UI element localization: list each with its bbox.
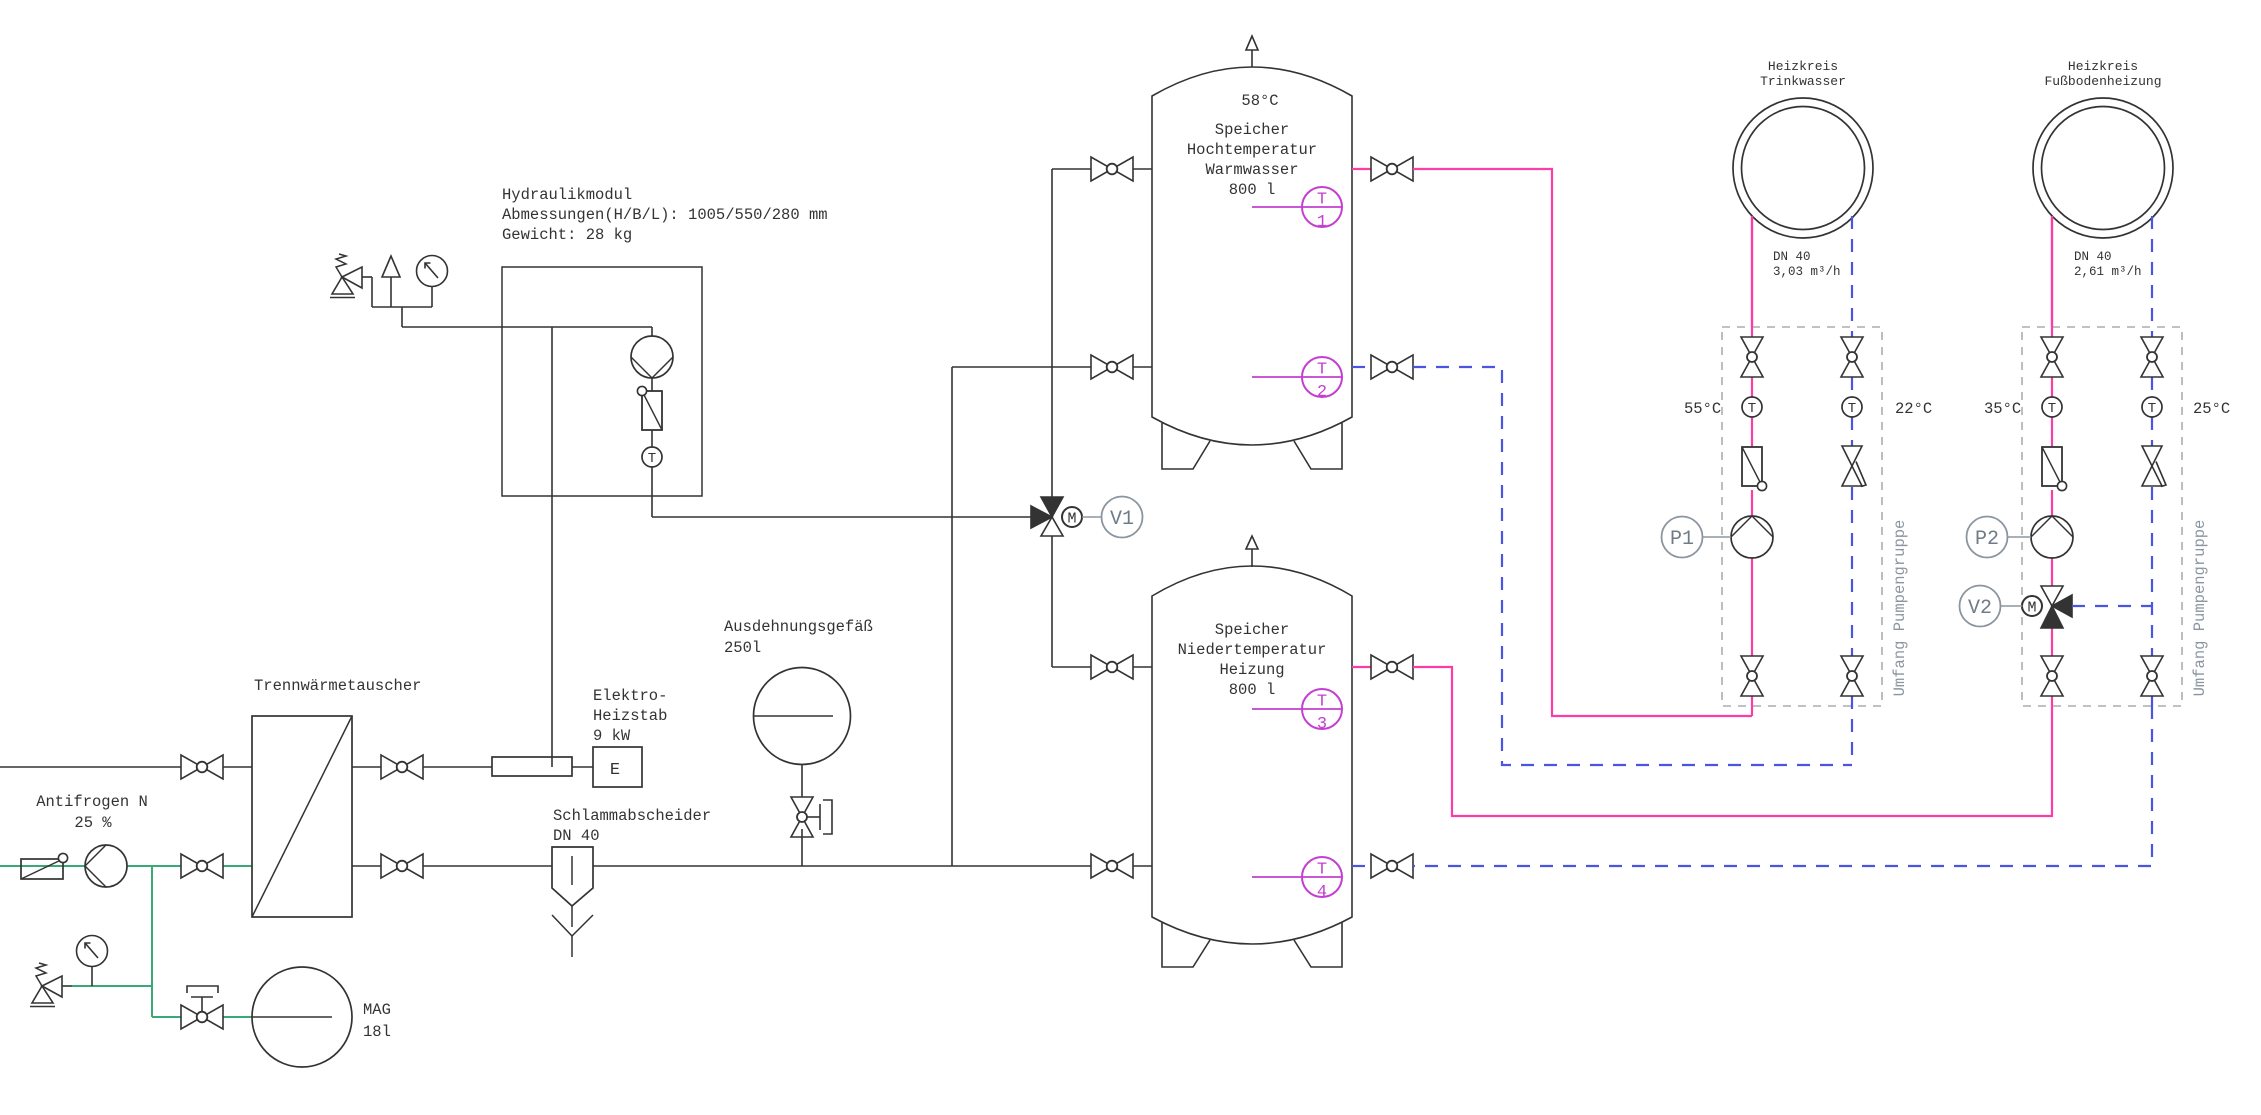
component: Heizkreis Fußbodenheizung circle: [2033, 98, 2173, 238]
svg-text:Heizstab: Heizstab: [593, 707, 667, 725]
svg-text:T: T: [1848, 401, 1856, 417]
svg-text:2: 2: [1317, 383, 1327, 402]
svg-text:M: M: [2027, 600, 2036, 617]
component: group1 strainer: [1742, 447, 1767, 491]
svg-text:Abmessungen(H/B/L): 1005/550/2: Abmessungen(H/B/L): 1005/550/280 mm: [502, 206, 828, 224]
sensor: T1: [1252, 187, 1342, 232]
label: P2 circle: [1967, 517, 2008, 558]
sensor: group1 supply T: [1742, 397, 1762, 417]
component: tank1 right leg: [1294, 423, 1342, 469]
pump: antifrogen circulation pump: [85, 845, 127, 887]
valve: tank1 lower-right: [1371, 355, 1413, 379]
svg-text:4: 4: [1317, 883, 1327, 902]
wire: pump inlet stub: [651, 327, 653, 336]
svg-text:250l: 250l: [724, 639, 761, 657]
svg-text:25 %: 25 %: [74, 814, 112, 832]
svg-text:22°C: 22°C: [1895, 400, 1932, 418]
svg-text:9 kW: 9 kW: [593, 727, 631, 745]
component: antifrogen feeder with float (rect+diagonal+circle): [21, 853, 68, 879]
svg-text:Umfang Pumpengruppe: Umfang Pumpengruppe: [2191, 520, 2209, 697]
wire: V2 actuator link: [2000, 605, 2023, 607]
svg-text:3: 3: [1317, 715, 1327, 734]
valve: tank2 upper-left: [1091, 655, 1133, 679]
wire: blue return rise group2: [2151, 216, 2153, 706]
wire: heat exchanger to electric heater (y=767): [352, 766, 593, 768]
svg-text:Speicher: Speicher: [1215, 621, 1289, 639]
valve: group2 supply top: [2041, 337, 2063, 377]
component: Trennwärmetauscher heat exchanger: [252, 716, 352, 917]
svg-text:Antifrogen N: Antifrogen N: [36, 793, 148, 811]
wire: green branch to MAG: [152, 866, 252, 1017]
label: V2 circle: [1960, 586, 2001, 627]
valve: group1 return top: [1841, 337, 1863, 377]
svg-text:Ausdehnungsgefäß: Ausdehnungsgefäß: [724, 618, 873, 636]
valve: tank1 lower-left: [1091, 355, 1133, 379]
sensor: module T thermometer: [642, 447, 662, 467]
wire: pink supply drop group1: [1751, 216, 1753, 716]
svg-text:V2: V2: [1968, 597, 1992, 620]
label: tank1 text: [1187, 92, 1317, 199]
component: air vent triangle top-left: [382, 256, 400, 277]
label: Ausdehnungsgefäß 250l: [724, 618, 873, 657]
wire: blue return group1 to tank1: [1413, 367, 1852, 765]
sensor: T4: [1252, 857, 1342, 902]
svg-text:Hydraulikmodul: Hydraulikmodul: [502, 186, 632, 204]
svg-text:MAG: MAG: [363, 1001, 391, 1019]
label: DN 40 / 3,03 m³/h: [1773, 250, 1841, 279]
svg-text:T: T: [1317, 693, 1327, 712]
svg-text:E: E: [610, 761, 620, 780]
label: MAG 18l: [363, 1001, 391, 1041]
svg-text:3,03 m³/h: 3,03 m³/h: [1773, 265, 1841, 279]
label: tank2 text: [1178, 621, 1327, 699]
svg-text:T: T: [2048, 401, 2056, 417]
svg-text:800 l: 800 l: [1229, 681, 1276, 699]
svg-text:V1: V1: [1110, 508, 1134, 531]
svg-text:T: T: [1317, 191, 1327, 210]
gauge: pressure gauge bottom-left: [77, 936, 108, 967]
label: Schlammabscheider DN 40: [553, 807, 711, 845]
valve: group2 balancing valve: [2142, 446, 2166, 487]
svg-text:DN 40: DN 40: [2074, 250, 2112, 264]
sensor: group1 return T: [1842, 397, 1862, 417]
component: tank2 left leg: [1162, 922, 1210, 967]
svg-text:Heizkreis: Heizkreis: [1768, 59, 1838, 74]
pump: P2 circulation pump: [2031, 516, 2073, 558]
wire: module branch down to heater: [551, 327, 553, 767]
wire: heat exchanger return to storage (y=866): [352, 865, 1152, 867]
valve: V1 three-way mixing valve: [1031, 497, 1063, 536]
wire: tank1 upper-left stub: [1133, 168, 1152, 170]
wire: tank2 return blue stub: [1352, 865, 1371, 867]
wire: expansion vessel to return pipe: [801, 829, 803, 866]
wire: tank1 return blue stub: [1352, 366, 1371, 368]
component: Schlammabscheider dirt separator: [552, 847, 593, 906]
component: tank1 left leg: [1162, 423, 1210, 469]
component: tank2 right leg: [1294, 922, 1342, 967]
svg-text:Umfang Pumpengruppe: Umfang Pumpengruppe: [1891, 520, 1909, 697]
valve: tank2 upper-right: [1371, 655, 1413, 679]
component: electric heater box E: [593, 747, 642, 787]
wire: tank1 upper-left port: [1052, 168, 1091, 170]
svg-text:1: 1: [1317, 213, 1327, 232]
valve: MAG fill valve with cap: [181, 986, 223, 1029]
svg-text:Schlammabscheider: Schlammabscheider: [553, 807, 711, 825]
valve: group1 supply bottom: [1741, 656, 1763, 696]
valve: group1 return bottom: [1841, 656, 1863, 696]
wire: blue return group2 to tank2: [1413, 706, 2152, 866]
wire: riser tank1-bottom to return pipe (x=952): [951, 367, 953, 866]
wire: pink supply drop group2: [2051, 216, 2053, 706]
valve: tank1 upper-right: [1371, 157, 1413, 181]
svg-text:18l: 18l: [363, 1023, 391, 1041]
svg-text:Heizkreis: Heizkreis: [2068, 59, 2138, 74]
wire: pump to filter: [651, 378, 653, 391]
valve: tank2 lower-left: [1091, 854, 1133, 878]
svg-text:Warmwasser: Warmwasser: [1205, 161, 1298, 179]
svg-text:P2: P2: [1975, 528, 1999, 551]
svg-text:T: T: [648, 451, 656, 467]
component: immersion heater element: [492, 757, 572, 776]
box: Umfang Pumpengruppe 1 dashed: [1722, 327, 1882, 706]
component: module filter/strainer: [637, 386, 662, 430]
wire: V2 bypass dashed: [2072, 605, 2152, 607]
valve: supply-side left of heat exchanger: [181, 755, 223, 779]
valve: V2 three-way mixing valve: [2041, 586, 2072, 628]
component: safety relief valve bottom-left: [30, 963, 62, 1007]
svg-text:35°C: 35°C: [1984, 400, 2021, 418]
component: V1 actuator M: [1062, 507, 1082, 528]
label: Hydraulikmodul data: [502, 186, 828, 244]
vessel: Speicher Hochtemperatur Warmwasser tank body: [1152, 67, 1352, 445]
valve: supply-side right of heat exchanger: [381, 755, 423, 779]
wire: primary supply pipe to heat exchanger (y=767): [0, 766, 252, 768]
wire: tank1 supply pink stub: [1352, 168, 1371, 170]
label: DN 40 / 2,61 m³/h: [2074, 250, 2142, 279]
component: tank1 vent: [1246, 36, 1258, 67]
wire: P1 link: [1702, 536, 1731, 538]
wire: blue return rise group1: [1851, 216, 1853, 765]
component: dirt separator drain: [552, 906, 593, 957]
svg-text:T: T: [2148, 401, 2156, 417]
svg-text:DN 40: DN 40: [1773, 250, 1811, 264]
svg-text:Hochtemperatur: Hochtemperatur: [1187, 141, 1317, 159]
svg-text:T: T: [1317, 361, 1327, 380]
valve: group2 return bottom: [2141, 656, 2163, 696]
valve: group1 supply top: [1741, 337, 1763, 377]
svg-text:DN 40: DN 40: [553, 827, 600, 845]
box: Hydraulikmodul outline: [502, 267, 702, 496]
label: Heizkreis Trinkwasser: [1760, 59, 1846, 89]
svg-text:Elektro-: Elektro-: [593, 687, 667, 705]
wire: tank2 upper-left stub: [1133, 666, 1152, 668]
wire: gauge stem bottom-left: [91, 967, 93, 986]
wire: tank1 lower-left stub: [1133, 366, 1152, 368]
wire: module outlet down: [651, 467, 653, 517]
valve: tank1 upper-left: [1091, 157, 1133, 181]
svg-text:Heizung: Heizung: [1219, 661, 1284, 679]
label: V1 circle: [1102, 497, 1143, 538]
svg-text:Trennwärmetauscher: Trennwärmetauscher: [254, 677, 421, 695]
sensor: T2: [1252, 357, 1342, 402]
valve: expansion vessel isolation valve with cap: [791, 797, 832, 837]
valve: return-side left of heat exchanger: [181, 854, 223, 878]
label: Antifrogen N 25 %: [36, 793, 148, 832]
valve: group1 balancing valve: [1842, 446, 1866, 487]
sensor: group2 return T: [2142, 397, 2162, 417]
component: expansion vessel 250l: [753, 668, 851, 765]
svg-text:2,61 m³/h: 2,61 m³/h: [2074, 265, 2142, 279]
svg-text:P1: P1: [1670, 528, 1694, 551]
wire: tank1 lower-left port: [952, 366, 1091, 368]
component: MAG expansion vessel 18l: [252, 967, 352, 1067]
vessel: Speicher Niedertemperatur Heizung tank body: [1152, 566, 1352, 944]
wire: riser to V1 (x=1052) upper: [1051, 169, 1053, 497]
component: Heizkreis Trinkwasser circle: [1733, 98, 1873, 238]
svg-text:800 l: 800 l: [1229, 181, 1276, 199]
svg-text:Fußbodenheizung: Fußbodenheizung: [2044, 74, 2161, 89]
valve: group2 supply bottom: [2041, 656, 2063, 696]
svg-text:58°C: 58°C: [1241, 92, 1278, 110]
pump: Hydraulikmodul circulation pump: [631, 336, 673, 378]
svg-text:25°C: 25°C: [2193, 400, 2230, 418]
wire: tank2 supply pink stub: [1352, 666, 1371, 668]
sensor: T3: [1252, 689, 1342, 734]
label: Heizkreis Fußbodenheizung: [2044, 59, 2161, 89]
svg-text:Trinkwasser: Trinkwasser: [1760, 74, 1846, 89]
pump: P1 circulation pump: [1731, 516, 1773, 558]
wire: pink tank1 supply to pump group 1: [1413, 169, 1752, 716]
component: group2 strainer: [2042, 447, 2067, 491]
label: Elektro-Heizstab 9 kW: [593, 687, 667, 745]
svg-text:T: T: [1748, 401, 1756, 417]
svg-text:Gewicht: 28 kg: Gewicht: 28 kg: [502, 226, 632, 244]
box: Umfang Pumpengruppe 2 dashed: [2022, 327, 2182, 706]
sensor: group2 supply T: [2042, 397, 2062, 417]
gauge: pressure gauge top-left: [417, 256, 448, 287]
wire: module outlet to mixing valve V1: [652, 516, 1031, 518]
wire: safety group to module pump: [402, 326, 652, 328]
wire: filter to T sensor: [651, 430, 653, 447]
valve: tank2 lower-right: [1371, 854, 1413, 878]
wire: heizkreis1 pink stub: [1751, 216, 1753, 327]
wire: heizkreis2 pink stub: [2051, 216, 2053, 327]
wire: safety group branch (green, y=986): [62, 985, 152, 987]
svg-text:T: T: [1317, 861, 1327, 880]
wire: safety group manifold top-left: [362, 277, 432, 327]
valve: return-side right of heat exchanger: [381, 854, 423, 878]
wire: pink tank2 supply to pump group 2: [1413, 667, 2052, 816]
valve: group2 return top: [2141, 337, 2163, 377]
component: V2 actuator M: [2022, 596, 2042, 617]
svg-text:M: M: [1067, 511, 1076, 528]
wire: P2 link: [2007, 536, 2031, 538]
svg-text:Niedertemperatur: Niedertemperatur: [1178, 641, 1327, 659]
svg-text:55°C: 55°C: [1684, 400, 1721, 418]
wire: antifrogen return pipe (green, y=866): [0, 865, 252, 867]
svg-text:Speicher: Speicher: [1215, 121, 1289, 139]
component: safety relief valve top-left: [330, 254, 362, 298]
wire: V1 to tank2 upper-left: [1052, 536, 1091, 667]
component: tank2 vent: [1246, 536, 1258, 567]
wire: V1 actuator link: [1082, 516, 1101, 518]
wire: expansion vessel stem: [801, 765, 803, 797]
label: P1 circle: [1662, 517, 1703, 558]
